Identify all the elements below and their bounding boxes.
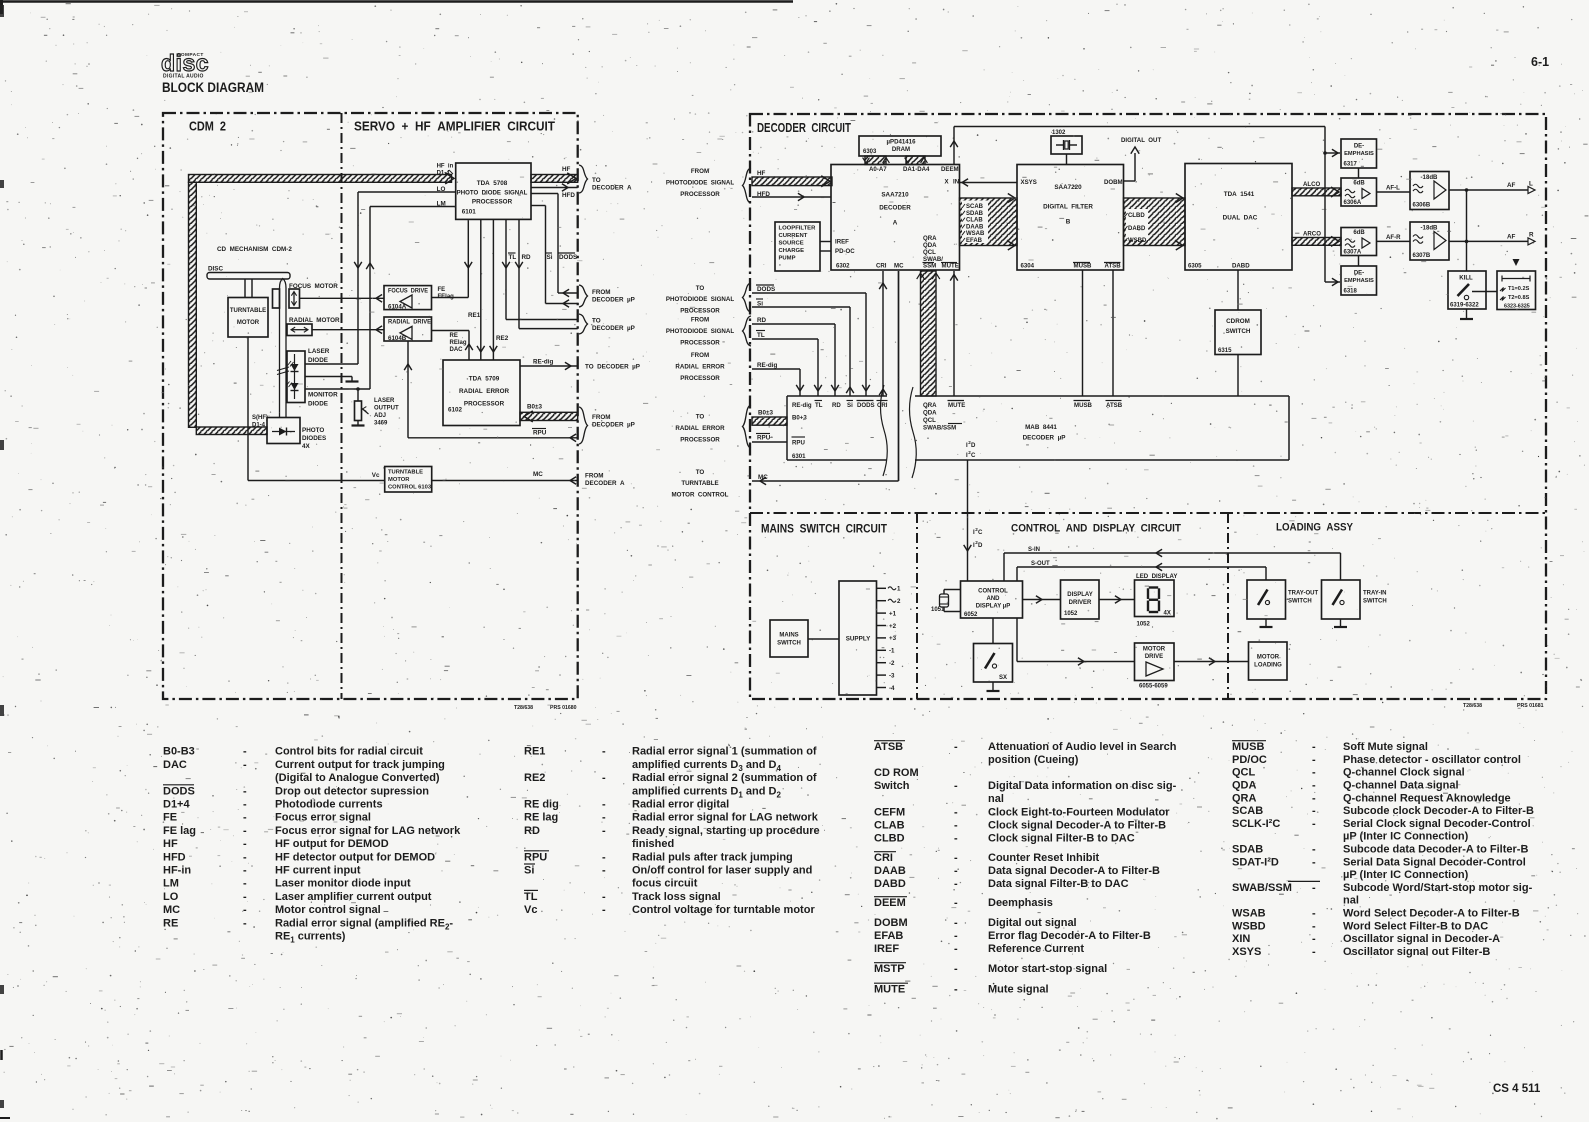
svg-text:6319-6322: 6319-6322 bbox=[1450, 303, 1479, 309]
svg-text:finished: finished bbox=[632, 838, 674, 850]
svg-text:-: - bbox=[954, 963, 958, 975]
svg-text:Control bits for radial circui: Control bits for radial circuit bbox=[275, 746, 423, 758]
svg-text:KILL: KILL bbox=[1459, 275, 1473, 282]
svg-text:LASER: LASER bbox=[308, 348, 330, 355]
filter 6dB 6307A bbox=[1341, 228, 1377, 256]
DRAM uPD41416 6303 bbox=[859, 136, 941, 156]
page number 6-1 bbox=[1531, 55, 1549, 69]
svg-text:SWITCH: SWITCH bbox=[1288, 599, 1312, 605]
wire MUSB bbox=[1082, 270, 1084, 396]
document number CS 4 511 bbox=[1493, 1083, 1541, 1095]
svg-text:DIGITAL OUT: DIGITAL OUT bbox=[1121, 137, 1161, 144]
svg-text:DIODE: DIODE bbox=[308, 357, 328, 364]
svg-text:Laser amplifier current output: Laser amplifier current output bbox=[275, 891, 432, 903]
svg-text:SOURCE: SOURCE bbox=[779, 241, 804, 247]
brace to decoder uP 1 bbox=[579, 314, 635, 334]
svg-text:PROCESSOR: PROCESSOR bbox=[680, 308, 720, 315]
svg-text:-18dB: -18dB bbox=[1421, 174, 1439, 181]
amplifier -18dB 6307B bbox=[1410, 222, 1449, 260]
svg-text:DUAL DAC: DUAL DAC bbox=[1223, 215, 1258, 222]
svg-text:AF: AF bbox=[1507, 234, 1516, 241]
svg-text:TURNTABLE: TURNTABLE bbox=[388, 470, 423, 476]
svg-text:µPD41416: µPD41416 bbox=[887, 139, 917, 146]
svg-text:QRA: QRA bbox=[1232, 792, 1257, 804]
svg-text:DIODE: DIODE bbox=[308, 401, 328, 408]
wire RPU bbox=[404, 341, 578, 442]
svg-text:FElag: FElag bbox=[438, 294, 455, 300]
svg-text:Attenuation of Audio level in: Attenuation of Audio level in Search bbox=[988, 741, 1177, 753]
svg-text:HF output for DEMOD: HF output for DEMOD bbox=[275, 838, 389, 850]
svg-text:Word Select Filter-B to DAC: Word Select Filter-B to DAC bbox=[1343, 920, 1488, 932]
svg-text:Photodiode currents: Photodiode currents bbox=[275, 799, 383, 811]
svg-text:MAINS SWITCH CIRCUIT: MAINS SWITCH CIRCUIT bbox=[761, 524, 887, 536]
wire TL bbox=[502, 219, 578, 319]
svg-text:MAB 8441: MAB 8441 bbox=[1025, 424, 1057, 431]
svg-text:HF-in: HF-in bbox=[163, 865, 191, 877]
svg-text:DODS: DODS bbox=[163, 785, 195, 797]
svg-text:RADIAL ERROR: RADIAL ERROR bbox=[675, 363, 725, 370]
svg-text:SWAB/SSM: SWAB/SSM bbox=[923, 425, 956, 432]
svg-text:HF: HF bbox=[163, 838, 178, 850]
svg-text:Current output for track jumpi: Current output for track jumping bbox=[275, 759, 445, 771]
svg-text:TRAY-IN: TRAY-IN bbox=[1363, 591, 1386, 597]
loopfilter current source charge pump bbox=[775, 222, 820, 271]
svg-text:Mute signal: Mute signal bbox=[988, 984, 1049, 996]
svg-text:TO: TO bbox=[592, 177, 601, 184]
svg-text:PROCESSOR: PROCESSOR bbox=[680, 436, 720, 443]
svg-text:-: - bbox=[602, 772, 606, 784]
svg-text:Reference Current: Reference Current bbox=[988, 943, 1084, 955]
svg-text:RADIAL ERROR: RADIAL ERROR bbox=[675, 425, 725, 432]
TDA 5709 radial error processor bbox=[443, 360, 520, 426]
label to photodiode signal processor bbox=[666, 285, 735, 315]
svg-text:DAAB: DAAB bbox=[874, 865, 906, 877]
svg-text:Oscillator signal in Decoder-A: Oscillator signal in Decoder-A bbox=[1343, 933, 1500, 945]
svg-text:DRIVER: DRIVER bbox=[1069, 600, 1092, 606]
wire LM bbox=[305, 207, 456, 391]
svg-text:CLAB: CLAB bbox=[874, 820, 905, 832]
svg-text:6306B: 6306B bbox=[1413, 203, 1431, 209]
svg-text:-: - bbox=[243, 917, 247, 929]
svg-text:SWITCH: SWITCH bbox=[1363, 599, 1387, 605]
svg-text:RD: RD bbox=[522, 254, 532, 261]
svg-text:D: D bbox=[971, 442, 976, 449]
svg-text:EMPHASIS: EMPHASIS bbox=[1344, 151, 1374, 157]
svg-text:WSAB: WSAB bbox=[966, 231, 985, 237]
ground laser bbox=[346, 380, 359, 382]
wire DOBM digital out bbox=[1121, 137, 1161, 181]
svg-text:QCL: QCL bbox=[923, 249, 936, 256]
svg-text:FROM: FROM bbox=[691, 168, 709, 175]
svg-text:1051: 1051 bbox=[931, 607, 945, 613]
brace RD TL bbox=[743, 316, 752, 346]
svg-text:EMPHASIS: EMPHASIS bbox=[1344, 278, 1374, 284]
svg-text:-4: -4 bbox=[889, 685, 895, 692]
wire HFD out bbox=[531, 184, 578, 199]
focus motor bbox=[273, 283, 339, 308]
svg-text:RADIAL MOTOR: RADIAL MOTOR bbox=[289, 317, 340, 324]
svg-text:PRS 01680: PRS 01680 bbox=[550, 705, 577, 711]
svg-text:DAC: DAC bbox=[450, 347, 464, 353]
svg-text:4X: 4X bbox=[1164, 611, 1171, 617]
svg-text:TL: TL bbox=[524, 891, 538, 903]
wire uP to motor drive bbox=[1017, 618, 1135, 665]
svg-text:Vc: Vc bbox=[372, 472, 380, 479]
crystal 1302 bbox=[1051, 130, 1082, 165]
svg-text:PROCESSOR: PROCESSOR bbox=[680, 191, 720, 198]
svg-text:QDA: QDA bbox=[923, 410, 937, 417]
svg-text:HF current input: HF current input bbox=[275, 865, 361, 877]
motor drive 6055-6059 bbox=[1135, 643, 1175, 690]
wire CRI bbox=[879, 271, 887, 396]
SX switch bbox=[974, 644, 1013, 683]
svg-text:-: - bbox=[1312, 856, 1316, 868]
svg-text:RPU: RPU bbox=[757, 435, 771, 442]
laser output adj 3469 bbox=[352, 389, 400, 427]
svg-text:DISPLAY µP: DISPLAY µP bbox=[976, 604, 1010, 610]
wire RE-dig decoder bbox=[752, 362, 804, 396]
svg-text:-: - bbox=[954, 852, 958, 864]
brace B0 RPU bbox=[743, 405, 752, 448]
svg-text:SDAB: SDAB bbox=[966, 211, 984, 217]
section title LOADING ASSY bbox=[1276, 522, 1354, 534]
MAB8441 decoder uP 6301 bbox=[787, 396, 1289, 460]
svg-text:Radial error signal for LAG ne: Radial error signal for LAG network bbox=[632, 812, 819, 824]
wire kill tap bbox=[1466, 190, 1468, 271]
svg-text:DOBM: DOBM bbox=[1104, 179, 1123, 186]
svg-text:6318: 6318 bbox=[1344, 289, 1358, 295]
svg-text:RElag: RElag bbox=[450, 340, 467, 346]
svg-text:DECODER µP: DECODER µP bbox=[1023, 435, 1066, 442]
svg-text:DA1-DA4: DA1-DA4 bbox=[903, 166, 930, 173]
svg-text:MUSB: MUSB bbox=[1074, 402, 1093, 409]
label from photodiode signal processor bbox=[666, 168, 735, 198]
svg-text:2: 2 bbox=[897, 598, 901, 605]
ground SX bbox=[987, 682, 1000, 691]
svg-text:4X: 4X bbox=[302, 443, 311, 450]
svg-text:Si: Si bbox=[847, 402, 853, 409]
filter 6dB 6306A bbox=[1341, 178, 1377, 206]
svg-text:RE1: RE1 bbox=[468, 312, 481, 319]
svg-text:AF-L: AF-L bbox=[1386, 185, 1400, 192]
svg-text:RE-dig: RE-dig bbox=[533, 359, 553, 366]
wire RE1 bbox=[468, 219, 485, 360]
svg-text:TO: TO bbox=[696, 469, 705, 476]
svg-text:Drop out detector supression: Drop out detector supression bbox=[275, 785, 429, 797]
svg-text:-: - bbox=[243, 812, 247, 824]
svg-text:T28/638: T28/638 bbox=[514, 705, 533, 711]
svg-text:-: - bbox=[602, 865, 606, 877]
svg-text:-: - bbox=[602, 904, 606, 916]
ground tray-out bbox=[1260, 619, 1273, 627]
svg-text:DISC: DISC bbox=[208, 266, 223, 273]
svg-text:T1=0.2S: T1=0.2S bbox=[1508, 286, 1530, 292]
svg-text:Switch: Switch bbox=[874, 780, 910, 792]
svg-text:6104A: 6104A bbox=[388, 304, 407, 311]
svg-text:CDROM: CDROM bbox=[1226, 318, 1250, 325]
svg-text:FROM: FROM bbox=[592, 289, 611, 296]
wire Si decoder bbox=[752, 299, 854, 396]
svg-text:AND: AND bbox=[987, 596, 1001, 602]
svg-text:HF: HF bbox=[562, 166, 571, 173]
svg-text:TURNTABLE: TURNTABLE bbox=[681, 480, 718, 487]
svg-text:µP (Inter IC Connection): µP (Inter IC Connection) bbox=[1343, 869, 1469, 881]
svg-text:6055-6059: 6055-6059 bbox=[1139, 684, 1168, 690]
svg-text:TO: TO bbox=[696, 285, 705, 292]
svg-text:Q-channel Clock signal: Q-channel Clock signal bbox=[1343, 767, 1465, 779]
svg-text:TL: TL bbox=[509, 254, 517, 261]
svg-text:WSBD: WSBD bbox=[1128, 238, 1147, 244]
svg-text:CRI: CRI bbox=[876, 263, 887, 270]
motor loading box bbox=[1249, 642, 1288, 680]
TDA 5708 photo diode signal processor bbox=[456, 163, 531, 219]
svg-text:B: B bbox=[1066, 219, 1071, 226]
wire MC from decoder A bbox=[432, 471, 578, 484]
svg-text:Si: Si bbox=[757, 301, 763, 308]
svg-text:ATSB: ATSB bbox=[1106, 402, 1123, 409]
svg-text:6305: 6305 bbox=[1188, 263, 1202, 270]
supply output taps bbox=[877, 586, 902, 692]
wire DODS bbox=[531, 194, 578, 297]
wire focus drive to focus motor bbox=[300, 295, 385, 303]
radial drive 6104B bbox=[384, 317, 432, 342]
svg-text:Subcode Word/Start-stop motor: Subcode Word/Start-stop motor sig- bbox=[1343, 882, 1533, 894]
svg-text:-2: -2 bbox=[889, 660, 895, 667]
svg-text:RE-dig: RE-dig bbox=[792, 402, 812, 409]
wire RE RElag DAC bbox=[432, 331, 473, 361]
svg-text:On/off control for laser suppl: On/off control for laser supply and bbox=[632, 865, 812, 877]
svg-text:DABD: DABD bbox=[874, 878, 906, 890]
svg-text:Phase detector - oscillator co: Phase detector - oscillator control bbox=[1343, 754, 1521, 766]
svg-text:FE: FE bbox=[438, 287, 446, 293]
wire ATSB bbox=[1112, 270, 1114, 396]
svg-text:MSTP: MSTP bbox=[874, 963, 905, 975]
svg-text:LASER: LASER bbox=[374, 398, 395, 404]
svg-text:SX: SX bbox=[999, 675, 1007, 681]
svg-text:Subcode data Decoder-A to Filt: Subcode data Decoder-A to Filter-B bbox=[1343, 844, 1528, 856]
svg-text:A0-A7: A0-A7 bbox=[869, 166, 887, 173]
brace from decoder uP 2 bbox=[579, 407, 635, 444]
bus CLBD DABD WSBD hatched bbox=[1124, 194, 1186, 251]
svg-text:FE: FE bbox=[163, 812, 177, 824]
svg-text:Motor start-stop signal: Motor start-stop signal bbox=[988, 963, 1107, 975]
svg-text:-: - bbox=[1312, 792, 1316, 804]
svg-text:LM: LM bbox=[163, 878, 179, 890]
svg-text:-: - bbox=[954, 833, 958, 845]
svg-text:QDA: QDA bbox=[1232, 780, 1257, 792]
svg-text:6302: 6302 bbox=[836, 263, 850, 270]
svg-text:1302: 1302 bbox=[1052, 130, 1066, 136]
svg-text:Ready signal, starting up proc: Ready signal, starting up procedure bbox=[632, 825, 820, 837]
section title DECODER CIRCUIT bbox=[757, 121, 851, 135]
control / loading divider bbox=[1227, 513, 1229, 699]
wire AF R out bbox=[1449, 232, 1535, 245]
svg-text:6102: 6102 bbox=[448, 407, 463, 414]
svg-text:Digital out signal: Digital out signal bbox=[988, 917, 1077, 929]
tray-out switch bbox=[1247, 580, 1318, 619]
svg-text:CLAB: CLAB bbox=[966, 218, 983, 224]
svg-text:focus circuit: focus circuit bbox=[632, 878, 698, 890]
svg-text:6303: 6303 bbox=[863, 149, 877, 155]
wire S-IN bbox=[1004, 547, 1341, 581]
svg-text:FROM: FROM bbox=[585, 473, 604, 480]
radial motor bbox=[287, 317, 340, 336]
turntable motor control 6103 bbox=[385, 467, 432, 493]
svg-text:FROM: FROM bbox=[691, 317, 709, 324]
label from decoder A bbox=[585, 473, 625, 488]
svg-text:Serial Data Signal Decoder-Con: Serial Data Signal Decoder-Control bbox=[1343, 856, 1526, 868]
wire DODS decoder bbox=[752, 285, 870, 396]
svg-text:-18dB: -18dB bbox=[1421, 225, 1439, 232]
svg-text:-: - bbox=[602, 812, 606, 824]
svg-text:SDAT-I²D: SDAT-I²D bbox=[1232, 856, 1279, 868]
svg-text:6307B: 6307B bbox=[1413, 253, 1431, 259]
svg-text:-: - bbox=[243, 759, 247, 771]
svg-text:Data signal Decoder-A to Filte: Data signal Decoder-A to Filter-B bbox=[988, 865, 1160, 877]
svg-text:FE lag: FE lag bbox=[163, 825, 196, 837]
label to radial error processor bbox=[675, 414, 725, 444]
bus SWAB SSM hatched vertical bbox=[917, 271, 940, 396]
svg-text:-: - bbox=[1312, 780, 1316, 792]
svg-text:DABD: DABD bbox=[1232, 263, 1250, 270]
svg-text:QRA: QRA bbox=[923, 402, 937, 409]
wire MUTE bbox=[950, 271, 958, 396]
disc bbox=[207, 266, 290, 280]
svg-text:-: - bbox=[954, 930, 958, 942]
svg-text:DECODER µP: DECODER µP bbox=[592, 422, 635, 429]
section title MAINS SWITCH CIRCUIT bbox=[761, 524, 887, 536]
bus photodiode HF D1-4 hatched bbox=[189, 173, 455, 435]
wire laser diode mid to ground bbox=[305, 377, 352, 382]
svg-text:Clock signal Filter-B to DAC: Clock signal Filter-B to DAC bbox=[988, 833, 1135, 845]
svg-text:-: - bbox=[1312, 754, 1316, 766]
svg-text:-: - bbox=[243, 746, 247, 758]
brace DODS Si bbox=[743, 283, 752, 312]
svg-text:Word Select Decoder-A to Filte: Word Select Decoder-A to Filter-B bbox=[1343, 908, 1520, 920]
svg-text:SDAB: SDAB bbox=[1232, 844, 1263, 856]
svg-text:TURNTABLE: TURNTABLE bbox=[230, 308, 266, 314]
wire MC vertical bbox=[898, 271, 900, 481]
svg-text:Radial error signal 1 (summati: Radial error signal 1 (summation of bbox=[632, 746, 817, 758]
svg-text:RE-dig: RE-dig bbox=[757, 362, 777, 369]
svg-text:CRI: CRI bbox=[877, 402, 888, 409]
svg-text:CD ROM: CD ROM bbox=[874, 767, 919, 779]
svg-text:RADIAL ERROR: RADIAL ERROR bbox=[459, 388, 509, 395]
wire MC decoder bbox=[752, 271, 899, 485]
svg-text:Radial puls after track jumpin: Radial puls after track jumping bbox=[632, 851, 793, 863]
svg-text:Si: Si bbox=[524, 865, 534, 877]
label CD MECHANISM CDM-2 bbox=[217, 246, 292, 253]
wire radial drive to radial motor bbox=[312, 326, 384, 334]
amplifier -18dB 6306B bbox=[1410, 172, 1449, 210]
svg-text:RE: RE bbox=[163, 917, 178, 929]
svg-text:TL: TL bbox=[757, 332, 765, 339]
wire XSYS bbox=[960, 179, 1018, 187]
svg-text:6317: 6317 bbox=[1344, 162, 1358, 168]
svg-text:+2: +2 bbox=[889, 623, 897, 630]
svg-text:nal: nal bbox=[1343, 895, 1359, 907]
svg-text:T28/638: T28/638 bbox=[1463, 703, 1482, 709]
wire RE2 bbox=[490, 219, 509, 360]
svg-text:Si: Si bbox=[547, 254, 553, 261]
svg-text:SSM: SSM bbox=[923, 263, 936, 270]
bus DA1-DA4 hatched bbox=[905, 156, 928, 165]
svg-text:MC: MC bbox=[163, 904, 180, 916]
svg-text:-: - bbox=[954, 865, 958, 877]
svg-text:-: - bbox=[1312, 805, 1316, 817]
svg-text:RE1: RE1 bbox=[524, 746, 545, 758]
svg-text:ADJ: ADJ bbox=[374, 413, 386, 419]
svg-text:L: L bbox=[1529, 181, 1533, 188]
svg-text:Clock Eight-to-Fourteen Modula: Clock Eight-to-Fourteen Modulator bbox=[988, 807, 1170, 819]
svg-text:-: - bbox=[243, 878, 247, 890]
svg-text:-: - bbox=[243, 851, 247, 863]
bus ALCO hatched bbox=[1292, 181, 1341, 197]
svg-text:DABD: DABD bbox=[1128, 226, 1146, 232]
svg-text:DECODER A: DECODER A bbox=[592, 185, 632, 192]
svg-text:DECODER: DECODER bbox=[879, 205, 911, 212]
svg-text:-: - bbox=[243, 825, 247, 837]
svg-text:PROCESSOR: PROCESSOR bbox=[464, 401, 505, 408]
svg-text:Oscillator signal out Filter-B: Oscillator signal out Filter-B bbox=[1343, 946, 1490, 958]
resonator 1051 bbox=[931, 590, 961, 614]
supply box bbox=[839, 581, 877, 695]
svg-text:EFAB: EFAB bbox=[966, 238, 983, 244]
wire DABD to cdrom bbox=[1237, 270, 1239, 310]
svg-text:MOTOR: MOTOR bbox=[237, 320, 260, 326]
svg-text:Vc: Vc bbox=[524, 904, 537, 916]
wire AF-R bbox=[1377, 234, 1411, 241]
svg-text:disc: disc bbox=[161, 50, 209, 76]
svg-text:Radial error signal 2 (summati: Radial error signal 2 (summation of bbox=[632, 772, 817, 784]
svg-text:QCL: QCL bbox=[923, 417, 936, 424]
svg-text:PROCESSOR: PROCESSOR bbox=[680, 375, 720, 382]
svg-text:DECODER A: DECODER A bbox=[585, 480, 625, 487]
svg-text:CONTROL 6103: CONTROL 6103 bbox=[388, 485, 432, 491]
bus A0-A7 hatched bbox=[863, 156, 890, 165]
svg-text:B0-B3: B0-B3 bbox=[163, 746, 195, 758]
svg-text:PROCESSOR: PROCESSOR bbox=[472, 199, 513, 206]
svg-text:SAA7220: SAA7220 bbox=[1054, 184, 1082, 191]
laser diode bbox=[286, 348, 330, 403]
svg-text:LOADING ASSY: LOADING ASSY bbox=[1276, 522, 1354, 534]
svg-text:DAC: DAC bbox=[163, 759, 187, 771]
svg-text:QCL: QCL bbox=[1232, 767, 1256, 779]
svg-text:B0±3: B0±3 bbox=[758, 410, 774, 417]
svg-text:CS 4 511: CS 4 511 bbox=[1493, 1083, 1541, 1095]
svg-text:-: - bbox=[243, 838, 247, 850]
wire uP to SX switch bbox=[992, 618, 994, 644]
wire kill to timer bbox=[1472, 291, 1497, 293]
label to decoder uP RE-dig bbox=[585, 364, 640, 371]
plate id left bbox=[514, 705, 577, 711]
svg-text:Motor control signal: Motor control signal bbox=[275, 904, 381, 916]
svg-text:+1: +1 bbox=[889, 610, 897, 617]
SAA7210 decoder A 6302 bbox=[831, 165, 960, 271]
label monitor diode bbox=[308, 392, 338, 408]
svg-text:MOTOR: MOTOR bbox=[1143, 647, 1166, 653]
svg-text:RD: RD bbox=[757, 317, 767, 324]
svg-text:CONTROL: CONTROL bbox=[978, 589, 1008, 595]
decoder outer frame bbox=[750, 114, 1546, 699]
svg-text:S-OUT: S-OUT bbox=[1031, 561, 1050, 567]
brace from decoder uP bbox=[579, 285, 635, 307]
svg-text:DOBM: DOBM bbox=[874, 917, 908, 929]
svg-text:SCLK-I²C: SCLK-I²C bbox=[1232, 818, 1280, 830]
svg-text:RE2: RE2 bbox=[496, 335, 509, 342]
svg-text:MAINS: MAINS bbox=[779, 633, 798, 639]
svg-text:-: - bbox=[243, 891, 247, 903]
